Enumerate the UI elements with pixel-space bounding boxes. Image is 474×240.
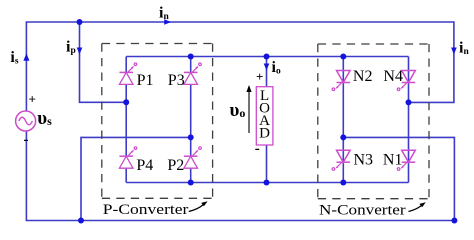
load box xyxy=(256,87,273,145)
wire: P1/P4 column xyxy=(125,57,127,183)
arrow to P-converter box xyxy=(189,205,204,212)
arrow i_o xyxy=(264,64,270,71)
wire: source bottom column xyxy=(25,131,27,221)
node: P3/P2 midpoint xyxy=(188,134,194,140)
thyristor P4 xyxy=(119,147,136,168)
thyristor N3 xyxy=(332,150,350,170)
svg-text:in: in xyxy=(459,40,469,58)
arrow i_p xyxy=(77,48,83,55)
wire: load column xyxy=(266,57,268,183)
N-converter dashed box xyxy=(318,44,429,199)
wire: right descent to N4/N1 midpoint xyxy=(409,21,454,102)
arrow i_s xyxy=(23,53,29,61)
ac source VS xyxy=(16,111,36,131)
wire: load top rail xyxy=(126,56,408,58)
thyristor P3 xyxy=(184,63,201,84)
label LOAD letters xyxy=(259,88,270,141)
svg-text:+: + xyxy=(29,92,36,107)
arrow v_o xyxy=(248,89,250,133)
svg-text:in: in xyxy=(159,5,169,23)
wire: bottom rail xyxy=(26,220,455,222)
node: bottom rail right junction xyxy=(451,218,457,224)
node: top rail / i_p junction xyxy=(77,19,83,25)
svg-text:υo: υo xyxy=(230,100,246,121)
node: N3 bottom xyxy=(340,180,346,186)
svg-text:P1: P1 xyxy=(137,72,154,89)
svg-text:N4: N4 xyxy=(383,68,403,85)
node: load bottom xyxy=(264,180,270,186)
thyristor N4 xyxy=(397,71,415,91)
svg-text:P2: P2 xyxy=(167,157,184,174)
node: N2 top xyxy=(340,54,346,60)
svg-text:io: io xyxy=(272,59,281,77)
svg-text:P3: P3 xyxy=(168,72,185,89)
node: load top xyxy=(264,54,270,60)
wire: left return to P3/P2 midpoint xyxy=(81,137,191,220)
svg-text:P4: P4 xyxy=(136,157,153,174)
svg-text:P-Converter: P-Converter xyxy=(103,200,189,217)
arrow to N-converter box xyxy=(409,206,422,212)
node: P1/P4 midpoint xyxy=(123,99,129,105)
wire: P3/P2 column xyxy=(190,57,192,183)
svg-text:-: - xyxy=(255,141,260,157)
svg-text:-: - xyxy=(24,132,29,148)
svg-text:D: D xyxy=(259,125,270,141)
P-converter dashed box xyxy=(102,44,213,199)
thyristor P2 xyxy=(184,147,201,168)
node: bottom rail left junction xyxy=(78,218,84,224)
svg-text:υs: υs xyxy=(37,108,52,129)
svg-text:+: + xyxy=(256,69,263,84)
arrow i_n on top rail xyxy=(164,19,171,25)
svg-text:ip: ip xyxy=(66,39,76,57)
wire: top rail xyxy=(26,21,454,23)
svg-text:N3: N3 xyxy=(354,152,374,169)
wire: N2/N3 column xyxy=(342,57,344,183)
arrow i_n (right side) xyxy=(451,48,457,55)
wire: load bottom rail xyxy=(126,182,408,184)
wire: i_p branch xyxy=(80,22,127,102)
svg-text:is: is xyxy=(10,49,18,67)
thyristor P1 xyxy=(119,63,136,84)
node: P2 bottom xyxy=(188,180,194,186)
node: N4/N1 midpoint xyxy=(406,99,412,105)
svg-text:N1: N1 xyxy=(383,152,403,169)
wire: right return to N2/N3 midpoint xyxy=(343,137,454,220)
thyristor N2 xyxy=(332,71,350,91)
svg-text:N2: N2 xyxy=(353,68,373,85)
wire: source top column xyxy=(25,22,27,111)
node: P3 top xyxy=(188,54,194,60)
wire: N4/N1 column xyxy=(408,57,410,183)
svg-text:N-Converter: N-Converter xyxy=(319,202,406,218)
thyristor N1 xyxy=(397,150,415,170)
node: N2/N3 midpoint xyxy=(340,134,346,140)
